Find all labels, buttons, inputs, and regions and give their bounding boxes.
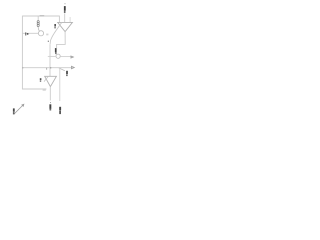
value label right of I1 [46,34,48,36]
annotation label [13,108,15,111]
net label bottom right [59,107,61,111]
node junction bus-V1 [50,67,51,68]
wire U2 output down [49,87,51,101]
wire left rail [22,16,46,89]
wire U1 right stub [69,17,71,22]
node dot below U2 output [49,101,52,104]
node patch on rail [40,15,45,16]
net label on left feed wire [25,33,26,34]
wire I1 to top rail [37,16,39,21]
current source I2 [56,54,60,58]
net label at leader [66,71,68,74]
wire mid horizontal through I2 [48,55,56,57]
reference label left of I2 [55,48,57,52]
wire diagonal from U1 input crossing to long vertical [50,22,62,44]
wire feed to current source I1 [22,32,38,34]
wire right drop from bus [59,68,61,101]
wire diagonal crossing U2 left edge [44,76,48,81]
net label below U2 output [49,104,51,109]
inductor coil loops [37,21,39,23]
node junction on bottom rail [43,89,46,92]
wire output bus [22,67,71,69]
wire coil to I1 [38,27,39,32]
wire long vertical node V1 [49,44,51,76]
pin label left of U1 [54,24,56,26]
port arrow mid right [71,56,74,58]
node tick on diagonal [48,41,49,42]
wire rail corner drop to U1 left input [58,16,60,23]
net leader diagonal [59,68,65,71]
port arrow bus right [71,66,74,69]
node tick on bus [45,68,48,70]
wire top supply rail [22,15,59,17]
annotation arrow bottom left [14,105,23,114]
net label above U1 input [65,2,66,5]
current source I1 [38,31,43,36]
pin label left of U2 [40,78,42,80]
wire U1 plus input [64,13,66,22]
wire U1 output down [57,32,66,48]
node junction bus-left rail [22,67,23,68]
op-amp U2 comparator (points down) [45,76,57,86]
op-amp U1 comparator (points down) [58,22,73,31]
